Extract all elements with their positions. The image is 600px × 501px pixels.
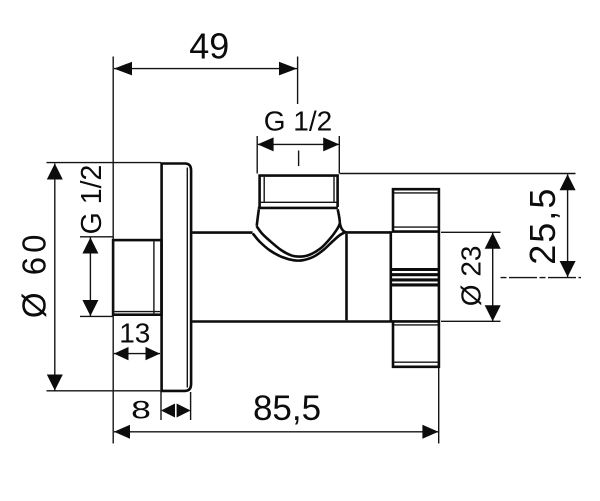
- extension lines for left G 1/2: [80, 237, 113, 317]
- dimension 13 line: [114, 353, 160, 355]
- handle lower knob top: [392, 320, 440, 323]
- outlet thread root lines: [260, 177, 338, 202]
- svg-text:Ø 60: Ø 60: [15, 231, 52, 319]
- saddle outer curve: [257, 224, 340, 257]
- handle upper knob bottom: [394, 226, 438, 228]
- handle inner top line: [394, 192, 438, 194]
- bonnet right edge: [389, 231, 392, 321]
- Ø 60 top arrow: [47, 164, 63, 180]
- body-bonnet divider: [345, 234, 348, 321]
- dimension G 1/2 top line: [258, 143, 340, 145]
- extension line top for 25,5: [340, 173, 576, 175]
- extension lines for Ø 23: [441, 232, 501, 321]
- extension lines for top G 1/2: [257, 136, 339, 174]
- handle grip ribs: [392, 270, 439, 285]
- 13 right arrow: [146, 347, 161, 360]
- extension lines for Ø 60: [47, 163, 162, 391]
- svg-text:49: 49: [189, 25, 229, 66]
- 25,5 top arrow: [560, 174, 576, 190]
- extension line right of 85,5: [438, 368, 440, 444]
- extension lines for 8: [161, 392, 191, 420]
- top outlet thread G 1/2: [260, 176, 338, 207]
- G 1/2 top right arrow: [323, 137, 339, 151]
- wire: body top right / bonnet top edge: [345, 231, 391, 234]
- svg-text:25,5: 25,5: [522, 187, 563, 265]
- svg-text:13: 13: [119, 317, 150, 348]
- Ø 23 bottom arrow: [485, 305, 501, 321]
- handle lower knob: [393, 321, 439, 366]
- wire: body bottom edge: [192, 320, 392, 323]
- svg-text:G 1/2: G 1/2: [264, 106, 332, 137]
- G 1/2 top left arrow: [258, 137, 274, 151]
- dimension 49 left arrow: [114, 62, 132, 76]
- neck right edge: [338, 209, 340, 222]
- dimension Ø 23 line: [492, 233, 494, 321]
- handle stem right edge: [438, 232, 441, 322]
- handle upper knob: [393, 189, 439, 231]
- svg-text:G 1/2: G 1/2: [76, 165, 108, 235]
- Ø 23 top arrow: [485, 233, 501, 249]
- handle inner bottom line: [394, 361, 438, 363]
- 85,5 right arrow: [422, 425, 438, 439]
- saddle inner curve: [253, 232, 345, 260]
- svg-text:Ø 23: Ø 23: [456, 246, 487, 307]
- neck left edge: [257, 209, 259, 226]
- dimension 85,5 line: [114, 431, 438, 433]
- Ø 60 bottom arrow: [47, 375, 63, 391]
- G 1/2 left up arrow: [82, 238, 98, 254]
- valve flange (wall rosette, side view): [162, 164, 192, 391]
- dimension 49 right arrow: [279, 62, 297, 76]
- 25,5 bottom arrow: [560, 261, 576, 277]
- inlet thread root lines: [115, 242, 161, 314]
- dimension 25,5 line: [567, 174, 569, 277]
- extension line right of 49 (outlet centre): [297, 57, 299, 105]
- 8 left arrow: [161, 404, 175, 418]
- valve body rectangle: [192, 231, 252, 234]
- flange inner edge line: [186, 168, 188, 388]
- svg-text:85,5: 85,5: [253, 389, 321, 428]
- outlet centre tick: [298, 151, 300, 167]
- 13 left arrow: [114, 347, 129, 360]
- neck right corner fillet: [340, 223, 347, 233]
- 85,5 left arrow: [114, 425, 130, 439]
- dimension 49 line: [114, 68, 297, 70]
- dimension Ø 60 line: [54, 164, 56, 391]
- dimension G 1/2 left line: [89, 238, 91, 317]
- centreline (dash-dot): [501, 277, 582, 279]
- outlet collar: [258, 207, 338, 210]
- extension line left (shared by 49 and 85,5): [112, 57, 114, 444]
- svg-text:8: 8: [131, 396, 151, 424]
- wall-side inlet thread G 1/2 (left rectangle): [113, 240, 161, 315]
- G 1/2 left down arrow: [82, 300, 98, 316]
- 8 right arrow: [177, 404, 191, 418]
